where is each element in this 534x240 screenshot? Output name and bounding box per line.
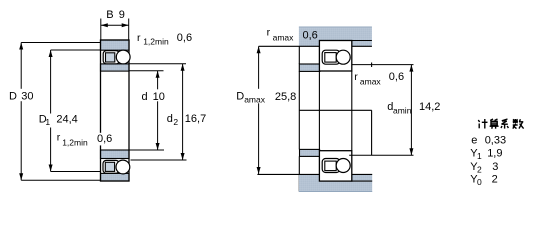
dimension D extension top bbox=[21, 42, 100, 44]
svg-text:24,4: 24,4 bbox=[56, 113, 77, 125]
label d2 16,7 bbox=[165, 112, 180, 124]
cage bottom bbox=[103, 160, 119, 173]
ball top bbox=[116, 50, 130, 64]
dimension d2 line bbox=[182, 64, 184, 160]
dimension d extension bottom bbox=[129, 149, 164, 151]
dimension B line bbox=[101, 24, 129, 26]
svg-text:10: 10 bbox=[153, 91, 165, 103]
svg-text:amax: amax bbox=[244, 94, 266, 104]
dimension D line bbox=[20, 43, 22, 181]
svg-text:16,7: 16,7 bbox=[185, 113, 206, 125]
glyph ji bbox=[478, 119, 487, 129]
outer ring bottom band bbox=[101, 173, 130, 181]
svg-text:amax: amax bbox=[273, 32, 295, 42]
glyph suan bbox=[490, 119, 499, 129]
label d 10 bbox=[151, 89, 167, 101]
svg-text:14,2: 14,2 bbox=[419, 101, 440, 113]
dimension D1 line bbox=[50, 50, 52, 172]
svg-text:0: 0 bbox=[477, 177, 482, 187]
svg-text:e: e bbox=[471, 135, 477, 147]
svg-text:r: r bbox=[354, 71, 358, 83]
bore line left bbox=[318, 71, 320, 151]
dimension D1 extension bottom bbox=[51, 171, 101, 173]
label Damax 25,8 bbox=[235, 89, 298, 104]
label D 30 bbox=[19, 89, 37, 101]
title 计算系数 (hand-drawn glyphs) bbox=[478, 119, 523, 129]
svg-text:r: r bbox=[137, 32, 141, 44]
dimension d2 extension top bbox=[129, 63, 186, 65]
svg-text:r: r bbox=[57, 132, 61, 144]
dimension damin top extension bbox=[352, 64, 414, 66]
dimension d line bbox=[157, 71, 159, 150]
svg-text:B: B bbox=[106, 9, 113, 21]
left vertical line lower bbox=[298, 156, 300, 191]
svg-text:amin: amin bbox=[393, 106, 412, 116]
bearing top section box bbox=[319, 41, 351, 72]
dimension d2 extension bottom bbox=[131, 159, 187, 161]
dimension D extension bottom bbox=[21, 179, 100, 181]
svg-text:3: 3 bbox=[492, 161, 498, 173]
spacer block bottom-left bbox=[300, 149, 320, 156]
outer ring top band bbox=[101, 40, 130, 50]
glyph shu bbox=[513, 119, 524, 129]
svg-text:30: 30 bbox=[21, 91, 33, 103]
bearing outline box bbox=[101, 40, 130, 181]
dimension Damax line bbox=[258, 46, 260, 174]
svg-text:0,6: 0,6 bbox=[97, 133, 112, 145]
bore line right bbox=[351, 71, 353, 151]
svg-text:0,6: 0,6 bbox=[389, 71, 404, 83]
cage pocket bottom bbox=[105, 162, 114, 171]
ball top right-fig bbox=[336, 50, 350, 64]
tick on damin top extension bbox=[371, 63, 373, 68]
svg-text:1,2min: 1,2min bbox=[143, 37, 169, 47]
shaft bar top edge + Damax bottom extension bbox=[257, 173, 372, 175]
svg-text:D: D bbox=[9, 91, 17, 103]
cage top bbox=[103, 51, 119, 64]
svg-text:d: d bbox=[142, 91, 148, 103]
svg-text:25,8: 25,8 bbox=[275, 91, 296, 103]
shoulder bottom edge right bbox=[351, 180, 373, 182]
housing step face bbox=[298, 46, 300, 64]
svg-text:r: r bbox=[267, 27, 271, 39]
inner ring top band bbox=[101, 64, 130, 71]
svg-text:2: 2 bbox=[173, 117, 178, 127]
cage pocket top bbox=[106, 53, 115, 62]
svg-text:1: 1 bbox=[45, 117, 50, 127]
spacer block top-left bbox=[299, 64, 320, 71]
housing bore seat line right bbox=[352, 40, 372, 42]
ball bottom right-fig bbox=[336, 159, 350, 173]
svg-text:9: 9 bbox=[119, 9, 125, 21]
svg-text:2: 2 bbox=[492, 173, 498, 185]
svg-text:1,2min: 1,2min bbox=[62, 138, 88, 148]
svg-text:0,6: 0,6 bbox=[177, 32, 192, 44]
svg-text:0,6: 0,6 bbox=[303, 30, 318, 42]
svg-text:2: 2 bbox=[477, 165, 482, 175]
svg-text:amax: amax bbox=[360, 76, 382, 86]
dimension damin bottom extension bbox=[349, 154, 413, 156]
dimension B extension lines bbox=[100, 19, 102, 41]
cage top right-fig bbox=[322, 50, 340, 64]
svg-text:1,9: 1,9 bbox=[487, 148, 502, 160]
label D1 24,4 bbox=[37, 114, 77, 128]
housing bore bottom edge + Damax top extension bbox=[259, 45, 372, 47]
cage pocket bottom right-fig bbox=[325, 161, 336, 171]
dimension D1 extension top bbox=[51, 49, 101, 51]
ball bottom bbox=[116, 160, 130, 174]
left vertical line mid bbox=[298, 71, 300, 149]
shaft bar bottom bbox=[299, 174, 372, 191]
svg-text:D: D bbox=[236, 90, 244, 102]
dimension damin line bbox=[410, 65, 412, 156]
center line bbox=[299, 109, 371, 111]
housing bar top bbox=[299, 27, 372, 47]
svg-text:d: d bbox=[167, 113, 173, 125]
bearing bottom section box bbox=[319, 151, 351, 181]
right vertical line mid bbox=[371, 110, 373, 155]
cage bottom right-fig bbox=[322, 159, 340, 173]
inner ring bottom band bbox=[101, 150, 130, 159]
svg-text:1: 1 bbox=[477, 151, 482, 161]
svg-text:0,33: 0,33 bbox=[485, 135, 506, 147]
glyph xi bbox=[501, 119, 508, 129]
dimension d extension top bbox=[129, 70, 164, 72]
cage pocket top right-fig bbox=[325, 53, 336, 63]
